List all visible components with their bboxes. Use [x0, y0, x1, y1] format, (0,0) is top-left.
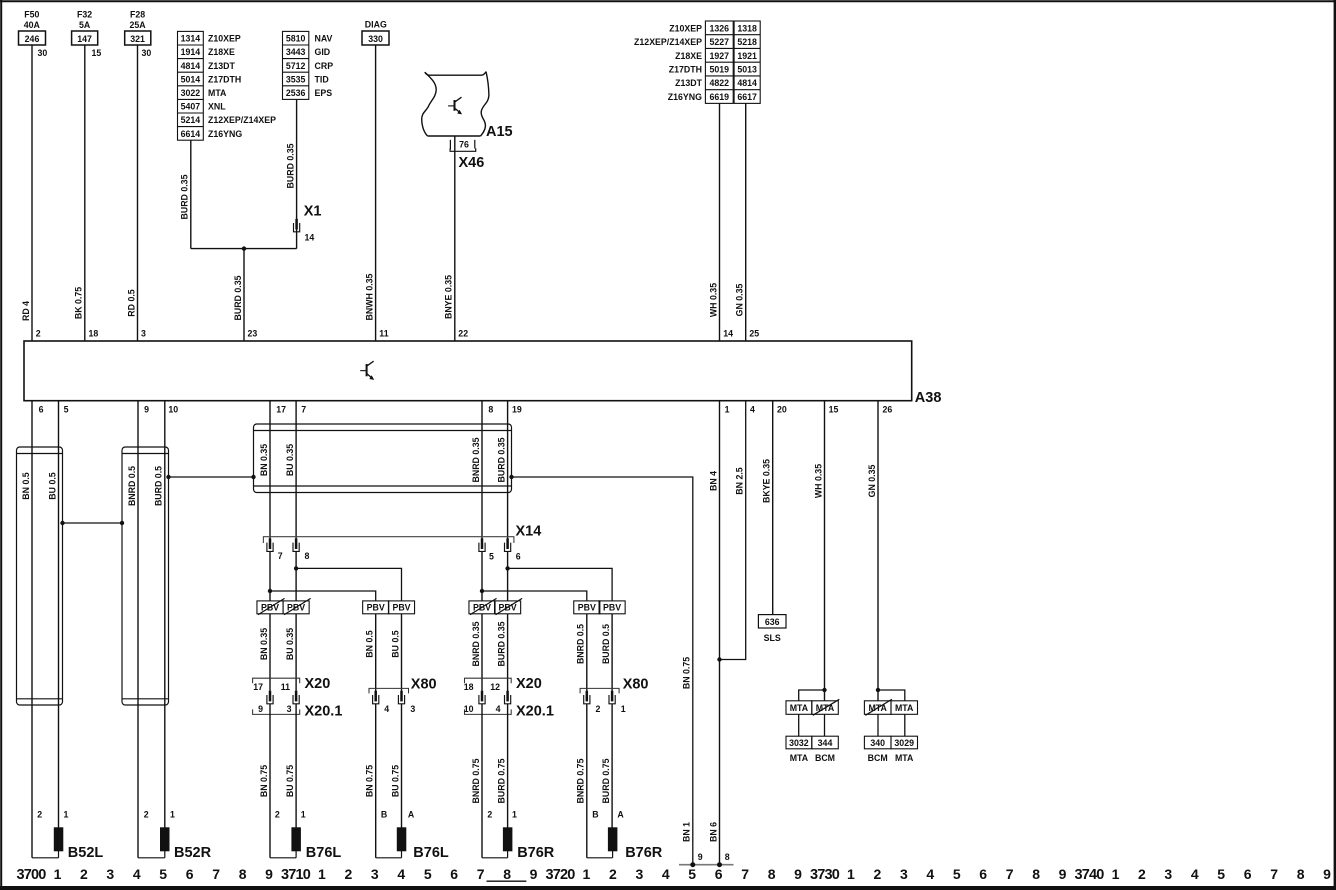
svg-text:3740: 3740	[1074, 867, 1104, 883]
svg-text:BK 0.75: BK 0.75	[74, 287, 84, 319]
speaker B76L (rear left tweeter)	[270, 828, 341, 861]
svg-text:Z17DTH: Z17DTH	[669, 64, 702, 74]
svg-text:EPS: EPS	[315, 88, 333, 98]
svg-text:GID: GID	[315, 47, 331, 57]
svg-text:B76R: B76R	[517, 845, 555, 861]
svg-text:X20: X20	[516, 676, 542, 692]
svg-text:Z13DT: Z13DT	[675, 78, 703, 88]
svg-text:1: 1	[54, 866, 62, 882]
svg-text:8: 8	[503, 866, 511, 882]
connector X80 pins 2/1 (right)	[580, 677, 648, 715]
svg-text:PBV: PBV	[603, 603, 621, 613]
svg-text:Z10XEP: Z10XEP	[669, 23, 702, 33]
svg-text:8: 8	[239, 866, 247, 882]
svg-text:PBV: PBV	[367, 603, 385, 613]
svg-text:5407: 5407	[181, 102, 201, 112]
wire BN 0.35 : X14 pin 7 down to PBV splice	[269, 552, 271, 601]
svg-text:WH 0.35: WH 0.35	[813, 464, 823, 498]
svg-text:X20.1: X20.1	[305, 704, 343, 720]
current-position underline under ruler 8	[487, 880, 527, 882]
svg-text:1: 1	[318, 866, 326, 882]
svg-text:1: 1	[621, 704, 626, 714]
svg-text:1326: 1326	[710, 23, 730, 33]
svg-text:B: B	[592, 810, 598, 820]
svg-text:6619: 6619	[710, 92, 730, 102]
svg-text:5014: 5014	[181, 74, 201, 84]
shield around rear speaker wires	[254, 424, 512, 493]
circuit boxes 3032 MTA / 344 BCM	[786, 736, 838, 763]
svg-text:Z16YNG: Z16YNG	[668, 92, 702, 102]
svg-text:6: 6	[516, 552, 521, 562]
svg-text:BU 0.75: BU 0.75	[285, 765, 295, 797]
svg-text:636: 636	[765, 617, 780, 627]
svg-text:8: 8	[725, 852, 730, 862]
svg-text:5019: 5019	[710, 64, 730, 74]
svg-text:BURD 0.35: BURD 0.35	[496, 437, 506, 482]
wire BN 0.5 : branch to X80 pin 4	[365, 614, 376, 692]
svg-text:5712: 5712	[286, 61, 306, 71]
svg-text:8: 8	[1032, 866, 1040, 882]
transistor symbol inside A15	[448, 97, 461, 114]
svg-text:4: 4	[133, 866, 141, 882]
svg-text:MTA: MTA	[208, 88, 227, 98]
svg-text:7: 7	[741, 866, 749, 882]
wire BKYE 0.35 : A38 pin 20 to SLS	[762, 401, 773, 615]
connector X20.1 pins 9/3	[253, 704, 343, 720]
svg-text:3029: 3029	[894, 738, 914, 748]
svg-text:BURD 0.5: BURD 0.5	[601, 624, 611, 664]
svg-text:1318: 1318	[737, 23, 757, 33]
radio / ECU A38	[24, 341, 941, 406]
code table: display unit circuit numbers (NAV/GID/CRP/TID/EPS)	[283, 31, 334, 99]
speaker B76L (rear left)	[376, 828, 449, 861]
svg-text:BCM: BCM	[868, 753, 888, 763]
svg-text:Z17DTH: Z17DTH	[208, 74, 241, 84]
svg-text:BN 6: BN 6	[708, 822, 718, 842]
connector X20.1 pins 10/4	[464, 704, 554, 720]
svg-text:1: 1	[583, 866, 591, 882]
svg-text:6: 6	[39, 405, 44, 415]
svg-text:BU 0.35: BU 0.35	[285, 628, 295, 660]
fuse F28 25A (circuit 321)	[125, 10, 151, 46]
wire BK 0.75 : fuse F32 terminal 15 to A38 pin 18	[74, 45, 102, 341]
svg-text:4: 4	[384, 704, 389, 714]
branch node on BURD wire to X80 right	[505, 566, 612, 601]
svg-text:A38: A38	[915, 390, 942, 406]
svg-text:1: 1	[1112, 866, 1120, 882]
svg-text:BURD 0.35: BURD 0.35	[496, 621, 506, 666]
svg-text:5810: 5810	[286, 34, 306, 44]
svg-text:X20: X20	[305, 676, 331, 692]
wire BU 0.35 : A38 pin 7 to X14 pin 8	[285, 401, 296, 539]
svg-text:40A: 40A	[24, 20, 41, 30]
wire BURD 0.35 splice to A38 pin 23	[233, 249, 258, 341]
svg-text:BNRD 0.75: BNRD 0.75	[576, 758, 586, 803]
svg-text:3443: 3443	[286, 47, 306, 57]
connector X1 pin 14	[294, 204, 322, 243]
svg-text:B52L: B52L	[68, 845, 104, 861]
svg-text:SLS: SLS	[764, 633, 781, 643]
connector X80 pins 4/3 (left)	[369, 677, 437, 715]
svg-text:246: 246	[25, 34, 40, 44]
svg-text:1921: 1921	[737, 51, 757, 61]
svg-text:7: 7	[1006, 866, 1014, 882]
svg-text:23: 23	[248, 329, 258, 339]
shield drain link to B52R shield	[166, 475, 255, 479]
svg-text:25: 25	[749, 329, 759, 339]
svg-text:9: 9	[265, 866, 273, 882]
svg-text:3710: 3710	[281, 867, 311, 883]
svg-text:321: 321	[130, 34, 145, 44]
svg-text:RD 4: RD 4	[21, 301, 31, 321]
wire BURD 0.75 : X80 to B76R pin A	[601, 704, 625, 828]
svg-text:5: 5	[1217, 866, 1225, 882]
svg-text:6: 6	[715, 866, 723, 882]
svg-text:2: 2	[596, 704, 601, 714]
svg-text:1914: 1914	[181, 47, 201, 57]
svg-text:BKYE 0.35: BKYE 0.35	[762, 459, 772, 503]
svg-text:76: 76	[459, 139, 469, 149]
connector X20 pins 18/12	[464, 676, 542, 704]
svg-text:PBV: PBV	[578, 603, 596, 613]
speaker B52R (front right)	[138, 810, 212, 862]
svg-text:2: 2	[275, 810, 280, 820]
wire BURD 0.35 from code table to splice	[180, 140, 191, 248]
svg-text:15: 15	[829, 405, 839, 415]
wire BN 2.5 : A38 pin 4 joins BN 4	[717, 401, 745, 662]
svg-text:9: 9	[258, 704, 263, 714]
svg-text:5: 5	[953, 866, 961, 882]
svg-text:9: 9	[144, 405, 149, 415]
svg-text:1: 1	[170, 810, 175, 820]
X14 pin 5	[479, 538, 494, 561]
svg-text:5214: 5214	[181, 115, 201, 125]
svg-text:WH 0.35: WH 0.35	[708, 283, 718, 317]
svg-text:X14: X14	[516, 524, 542, 540]
circuit boxes 340 BCM / 3029 MTA	[864, 736, 917, 763]
svg-text:2: 2	[609, 866, 617, 882]
svg-text:B: B	[381, 810, 387, 820]
wire BU 0.35 : PBV to X20 pin 11	[285, 614, 296, 692]
svg-text:6617: 6617	[737, 92, 757, 102]
svg-text:BN 0.35: BN 0.35	[259, 444, 269, 476]
svg-text:8: 8	[488, 405, 493, 415]
svg-text:14: 14	[305, 233, 315, 243]
svg-text:BU 0.75: BU 0.75	[390, 765, 400, 797]
svg-text:4: 4	[1191, 866, 1199, 882]
svg-text:4: 4	[750, 405, 755, 415]
fuse F50 40A (circuit 246)	[19, 10, 46, 46]
svg-text:MTA: MTA	[790, 703, 809, 713]
svg-text:BN 4: BN 4	[708, 471, 718, 491]
wire BN 0.35 : PBV to X20 pin 17	[259, 614, 270, 692]
svg-text:BN 0.75: BN 0.75	[259, 765, 269, 797]
svg-text:5: 5	[424, 866, 432, 882]
svg-text:9: 9	[1323, 866, 1331, 882]
svg-text:3032: 3032	[789, 738, 809, 748]
connector X14	[263, 524, 541, 544]
X14 pin 8	[293, 538, 310, 561]
svg-text:BN 1: BN 1	[682, 822, 692, 842]
svg-text:9: 9	[794, 866, 802, 882]
svg-text:MTA: MTA	[895, 753, 914, 763]
svg-text:3730: 3730	[810, 867, 840, 883]
svg-text:F50: F50	[24, 10, 39, 20]
option boxes PBV on rear-right speaker wires	[574, 601, 625, 614]
svg-text:6: 6	[186, 866, 194, 882]
svg-text:2: 2	[37, 810, 42, 820]
svg-text:4: 4	[662, 866, 670, 882]
svg-text:4: 4	[496, 704, 501, 714]
svg-text:30: 30	[38, 48, 48, 58]
svg-text:NAV: NAV	[315, 34, 333, 44]
svg-text:9: 9	[698, 852, 703, 862]
svg-text:7: 7	[1270, 866, 1278, 882]
svg-text:7: 7	[301, 405, 306, 415]
svg-text:Z12XEP/Z14XEP: Z12XEP/Z14XEP	[634, 37, 702, 47]
svg-text:RD 0.5: RD 0.5	[126, 289, 136, 316]
wire BURD 0.5 : branch to X80 pin 1	[601, 614, 612, 692]
svg-text:MTA: MTA	[895, 703, 914, 713]
svg-text:5: 5	[688, 866, 696, 882]
svg-text:X46: X46	[459, 155, 485, 171]
wire BU 0.5 : branch to X80 pin 3	[390, 614, 401, 692]
svg-text:17: 17	[253, 682, 263, 692]
speaker B52L (front left)	[32, 810, 103, 862]
svg-text:A15: A15	[486, 124, 513, 140]
wire BN 0.75 : X80 to B76L pin B	[365, 704, 388, 858]
svg-text:4822: 4822	[710, 78, 730, 88]
wire BNRD 0.75 : X80 to B76R pin B	[576, 704, 599, 858]
svg-text:147: 147	[77, 34, 92, 44]
svg-text:5: 5	[64, 405, 69, 415]
svg-text:2: 2	[144, 810, 149, 820]
svg-text:BCM: BCM	[815, 753, 835, 763]
wire RD 4 : fuse F50 terminal 30 to A38 pin 2	[21, 45, 48, 341]
wire BNRD 0.35 : PBV to X20 pin 18	[471, 614, 482, 692]
svg-text:18: 18	[89, 329, 99, 339]
label A15	[486, 124, 513, 140]
svg-text:BNRD 0.75: BNRD 0.75	[471, 758, 481, 803]
wire WH 0.35 : table to A38 pin 14	[708, 103, 733, 341]
wire BURD 0.5 : A38 pin 10 to B52R pin 1	[154, 401, 165, 828]
A15 pin 76 box	[450, 139, 476, 151]
wire GN 0.35 : A38 pin 26 to MTA junction	[867, 401, 880, 701]
wire BURD 0.35 : X14 pin 6 down	[507, 552, 509, 601]
branch node on BU wire to X80 left	[294, 566, 402, 601]
svg-text:3720: 3720	[545, 867, 575, 883]
svg-text:MTA: MTA	[790, 753, 809, 763]
svg-text:CRP: CRP	[315, 61, 334, 71]
svg-text:4814: 4814	[737, 78, 757, 88]
svg-text:10: 10	[168, 405, 178, 415]
svg-text:11: 11	[281, 682, 290, 692]
code table: ignition-feed circuit numbers per engine variant	[178, 31, 277, 140]
svg-text:3: 3	[636, 866, 644, 882]
connector X46	[459, 155, 485, 171]
wire BU 0.5 : A38 pin 5 to B52L pin 1	[47, 401, 58, 828]
svg-text:Z13DT: Z13DT	[208, 61, 236, 71]
wire BNRD 0.35 : A38 pin 8 to X14 pin 5	[471, 401, 482, 539]
X14 pin 6	[505, 538, 521, 561]
svg-text:BURD 0.35: BURD 0.35	[180, 174, 190, 219]
svg-text:3: 3	[287, 704, 292, 714]
svg-text:X20.1: X20.1	[516, 704, 554, 720]
wire BURD 0.35 from display table through X1	[285, 99, 296, 248]
svg-text:5218: 5218	[737, 37, 757, 47]
svg-text:BURD 0.35: BURD 0.35	[285, 143, 295, 188]
svg-text:A: A	[617, 810, 624, 820]
svg-text:BU 0.5: BU 0.5	[390, 630, 400, 657]
shield drain wire BN 0.75 / BN 1 to ground pin 9	[509, 475, 703, 865]
twisted pair shield around B52R wires	[122, 447, 169, 705]
svg-text:7: 7	[477, 866, 485, 882]
wire BNYE 0.35 : A15 pin 76 to A38 pin 22	[444, 136, 469, 341]
svg-text:F32: F32	[77, 10, 92, 20]
svg-text:PBV: PBV	[392, 603, 410, 613]
transistor symbol inside A38	[360, 361, 373, 379]
twisted pair shield around B52L wires	[17, 447, 63, 705]
branch node on BNRD wire to X80 right	[480, 589, 587, 601]
svg-text:B76L: B76L	[413, 845, 449, 861]
svg-text:22: 22	[458, 329, 468, 339]
svg-text:3: 3	[1164, 866, 1172, 882]
svg-text:9: 9	[530, 866, 538, 882]
svg-text:30: 30	[142, 48, 152, 58]
svg-text:3: 3	[371, 866, 379, 882]
speaker B76R (rear right)	[587, 828, 663, 861]
wire GN 0.35 : table to A38 pin 25	[735, 103, 760, 341]
svg-text:3022: 3022	[181, 88, 201, 98]
svg-text:2536: 2536	[286, 88, 306, 98]
wire BU 0.75 : X20.1 to B76L pin 1	[285, 704, 306, 828]
ground rail with pins 9 and 8	[679, 862, 734, 867]
svg-text:X1: X1	[304, 204, 322, 220]
svg-text:3: 3	[410, 704, 415, 714]
wire BURD 0.75 : X20.1 to B76R pin 1	[496, 704, 517, 828]
wire BNRD 0.5 : A38 pin 9 to B52R pin 2	[127, 401, 138, 858]
svg-text:7: 7	[212, 866, 220, 882]
svg-text:5A: 5A	[79, 20, 91, 30]
svg-text:B52R: B52R	[174, 845, 212, 861]
svg-text:5: 5	[489, 552, 494, 562]
svg-text:6: 6	[1244, 866, 1252, 882]
svg-text:20: 20	[777, 405, 787, 415]
option boxes PBV (crossed) on rear-left tweeter wires	[257, 598, 311, 614]
connector 636 SLS	[758, 615, 786, 643]
svg-text:10: 10	[464, 704, 474, 714]
svg-text:1: 1	[725, 405, 730, 415]
svg-text:4: 4	[397, 866, 405, 882]
svg-text:Z18XE: Z18XE	[208, 47, 235, 57]
wire BNRD 0.75 : X20.1 to B76R pin 2	[471, 704, 493, 858]
wire BU 0.35 : X14 pin 8 down to PBV splice	[295, 552, 297, 601]
svg-text:15: 15	[92, 48, 102, 58]
svg-text:BNRD 0.35: BNRD 0.35	[471, 437, 481, 482]
svg-text:11: 11	[379, 329, 388, 339]
svg-text:TID: TID	[315, 74, 329, 84]
svg-text:BNWH 0.35: BNWH 0.35	[364, 273, 374, 320]
svg-text:3: 3	[141, 329, 146, 339]
svg-text:4: 4	[926, 866, 934, 882]
svg-text:1: 1	[301, 810, 306, 820]
svg-text:5227: 5227	[710, 37, 730, 47]
svg-text:2: 2	[345, 866, 353, 882]
svg-text:Z10XEP: Z10XEP	[208, 34, 241, 44]
shield drain link between B52L and B52R shields	[60, 521, 124, 525]
svg-text:6: 6	[979, 866, 987, 882]
svg-text:6: 6	[450, 866, 458, 882]
svg-text:BN 0.5: BN 0.5	[365, 630, 375, 657]
svg-text:B76R: B76R	[625, 845, 663, 861]
svg-text:A: A	[408, 810, 415, 820]
wire BURD 0.35 : A38 pin 19 to X14 pin 6	[496, 401, 507, 539]
svg-text:330: 330	[368, 34, 383, 44]
svg-text:GN 0.35: GN 0.35	[867, 465, 877, 498]
svg-text:1314: 1314	[181, 34, 201, 44]
diagnostic connector DIAG (circuit 330)	[362, 20, 389, 46]
wire BU 0.75 : X80 to B76L pin A	[390, 704, 415, 828]
device A15 (antenna module, partial)	[422, 72, 489, 136]
svg-text:BURD 0.5: BURD 0.5	[154, 466, 164, 506]
svg-text:26: 26	[883, 405, 893, 415]
svg-text:Z12XEP/Z14XEP: Z12XEP/Z14XEP	[208, 115, 276, 125]
svg-text:F28: F28	[130, 10, 145, 20]
svg-text:BURD 0.35: BURD 0.35	[233, 275, 243, 320]
svg-text:X80: X80	[411, 677, 437, 693]
wire BNRD 0.5 : branch to X80 pin 2	[576, 614, 587, 692]
wire BNRD 0.35 : X14 pin 5 down	[481, 552, 483, 601]
svg-text:3700: 3700	[16, 867, 46, 883]
svg-text:1927: 1927	[710, 51, 730, 61]
svg-text:14: 14	[723, 329, 733, 339]
svg-text:3535: 3535	[286, 74, 306, 84]
option boxes MTA/MTA (left, to 3032 MTA / 344 BCM)	[786, 690, 839, 736]
svg-text:2: 2	[80, 866, 88, 882]
svg-text:X80: X80	[623, 677, 649, 693]
connector X20 pins 17/11	[253, 676, 331, 704]
svg-text:9: 9	[1059, 866, 1067, 882]
wire BN 0.35 : A38 pin 17 to X14 pin 7	[259, 401, 270, 539]
svg-text:7: 7	[278, 551, 283, 561]
svg-text:1: 1	[847, 866, 855, 882]
wire WH 0.35 : A38 pin 15 to MTA junction	[813, 401, 826, 701]
svg-text:17: 17	[276, 405, 286, 415]
option boxes PBV (crossed) on rear-right tweeter wires	[469, 598, 522, 614]
svg-text:BNRD 0.5: BNRD 0.5	[576, 624, 586, 664]
branch node on BN wire to X80 left	[268, 589, 376, 601]
svg-text:DIAG: DIAG	[365, 20, 387, 30]
svg-text:25A: 25A	[130, 20, 147, 30]
wire RD 0.5 : fuse F28 terminal 30 to A38 pin 3	[126, 45, 151, 341]
svg-text:BURD 0.75: BURD 0.75	[496, 758, 506, 803]
svg-text:340: 340	[870, 738, 885, 748]
svg-text:BU 0.35: BU 0.35	[285, 444, 295, 476]
svg-text:4814: 4814	[181, 61, 201, 71]
svg-text:B76L: B76L	[306, 845, 342, 861]
wire BN 4 : A38 pin 1 to ground pin 8	[708, 401, 730, 865]
wire BURD 0.35 : PBV to X20 pin 12	[496, 614, 507, 692]
svg-text:1: 1	[64, 810, 69, 820]
option boxes PBV on rear-left speaker wires	[363, 601, 415, 614]
svg-text:1: 1	[512, 810, 517, 820]
svg-text:BNRD 0.35: BNRD 0.35	[471, 621, 481, 666]
svg-text:2: 2	[36, 329, 41, 339]
svg-text:BNYE 0.35: BNYE 0.35	[444, 275, 454, 319]
svg-text:BN 0.75: BN 0.75	[365, 765, 375, 797]
A38 bottom pin numbers	[39, 405, 893, 415]
splice node: BURD wires join	[191, 246, 297, 250]
